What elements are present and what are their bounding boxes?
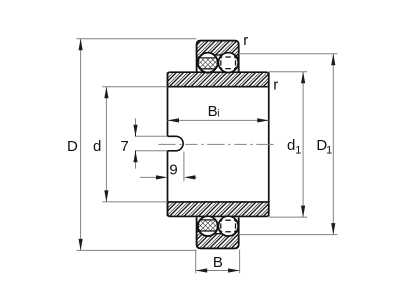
svg-text:d: d: [93, 138, 101, 155]
cage section (cross-hatched) in top left ball: [198, 58, 219, 69]
dimension d extension lines: [102, 87, 167, 202]
dimension d1 line with arrows: [302, 72, 304, 217]
svg-text:d: d: [287, 137, 295, 154]
bottom right ball: [218, 216, 238, 236]
outer ring bottom outline: [197, 217, 239, 248]
dimension B line with arrows: [196, 270, 240, 272]
dimension Bi line with arrows: [168, 119, 269, 121]
svg-text:r: r: [273, 76, 278, 93]
svg-text:9: 9: [169, 162, 177, 179]
dimension B extension lines: [196, 250, 240, 274]
dimension 9 extension line (slot depth): [183, 152, 185, 182]
inner ring right face line: [268, 72, 270, 216]
dimension D line with arrows: [80, 39, 82, 251]
dimension D1 line with arrows: [332, 54, 334, 235]
svg-text:1: 1: [326, 144, 332, 156]
inner ring bottom section (hatched band): [168, 202, 269, 217]
outer ring top section (hatched): [197, 41, 239, 58]
svg-text:B: B: [213, 254, 223, 271]
dashed square in bottom right ball: [221, 220, 236, 232]
dimension 7 arrows (outside, pointing at slot): [135, 119, 137, 169]
outer ring bottom section (hatched): [197, 231, 239, 248]
dimension d line with arrows: [105, 87, 107, 202]
dimension D extension lines: [77, 39, 197, 251]
bottom left ball: [198, 216, 218, 236]
slot extension thin lines (7 dim): [135, 136, 168, 151]
svg-text:1: 1: [295, 144, 301, 156]
cage section (cross-hatched) in bottom left ball: [198, 220, 219, 231]
slot (anchor groove with round end): [168, 136, 184, 151]
outer ring top outline: [197, 41, 239, 72]
dimension d1 extension lines: [269, 72, 307, 217]
svg-text:i: i: [217, 108, 219, 120]
axis center line (dash-dot): [158, 143, 275, 145]
dimension D1 extension lines: [239, 54, 338, 235]
top right ball: [218, 53, 238, 73]
svg-text:r: r: [243, 32, 248, 49]
svg-text:D: D: [67, 138, 78, 155]
dimension 9 arrows: [140, 176, 197, 178]
inner ring left face line (interrupted by slot): [167, 72, 169, 216]
dashed square in top right ball: [221, 57, 236, 69]
svg-text:B: B: [208, 103, 218, 120]
svg-text:7: 7: [120, 138, 128, 155]
inner ring top section (hatched band): [168, 72, 269, 87]
top left ball: [198, 53, 218, 73]
